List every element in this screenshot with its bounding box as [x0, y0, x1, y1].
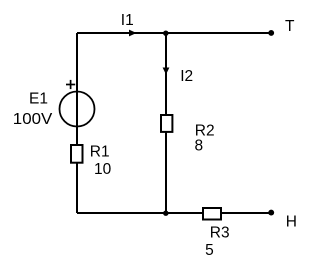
- svg-text:10: 10: [94, 161, 112, 178]
- svg-text:I2: I2: [180, 68, 193, 85]
- svg-text:100V: 100V: [13, 111, 53, 128]
- current arrow I2: [163, 68, 170, 75]
- resistor R1: [71, 145, 83, 163]
- svg-text:T: T: [285, 18, 295, 35]
- svg-text:H: H: [286, 214, 297, 231]
- svg-text:R1: R1: [90, 144, 110, 161]
- svg-text:I1: I1: [121, 12, 134, 29]
- node terminal T dot: [268, 30, 274, 36]
- wire left vertical: [76, 33, 78, 213]
- svg-text:E1: E1: [29, 91, 48, 108]
- current arrow I1: [129, 30, 137, 37]
- resistor R3: [203, 208, 221, 220]
- node junction top: [163, 31, 168, 36]
- resistor R2: [161, 115, 172, 132]
- voltage source E1 plus polarity: [66, 80, 75, 89]
- svg-text:R3: R3: [210, 225, 230, 242]
- voltage source E1 circle: [60, 92, 95, 127]
- wire top horizontal: [77, 32, 271, 34]
- wire middle vertical: [165, 33, 167, 213]
- wire bottom horizontal: [77, 212, 271, 214]
- svg-text:8: 8: [195, 138, 204, 155]
- svg-text:5: 5: [205, 242, 214, 259]
- node junction bottom: [163, 211, 168, 216]
- node terminal H dot: [268, 210, 274, 216]
